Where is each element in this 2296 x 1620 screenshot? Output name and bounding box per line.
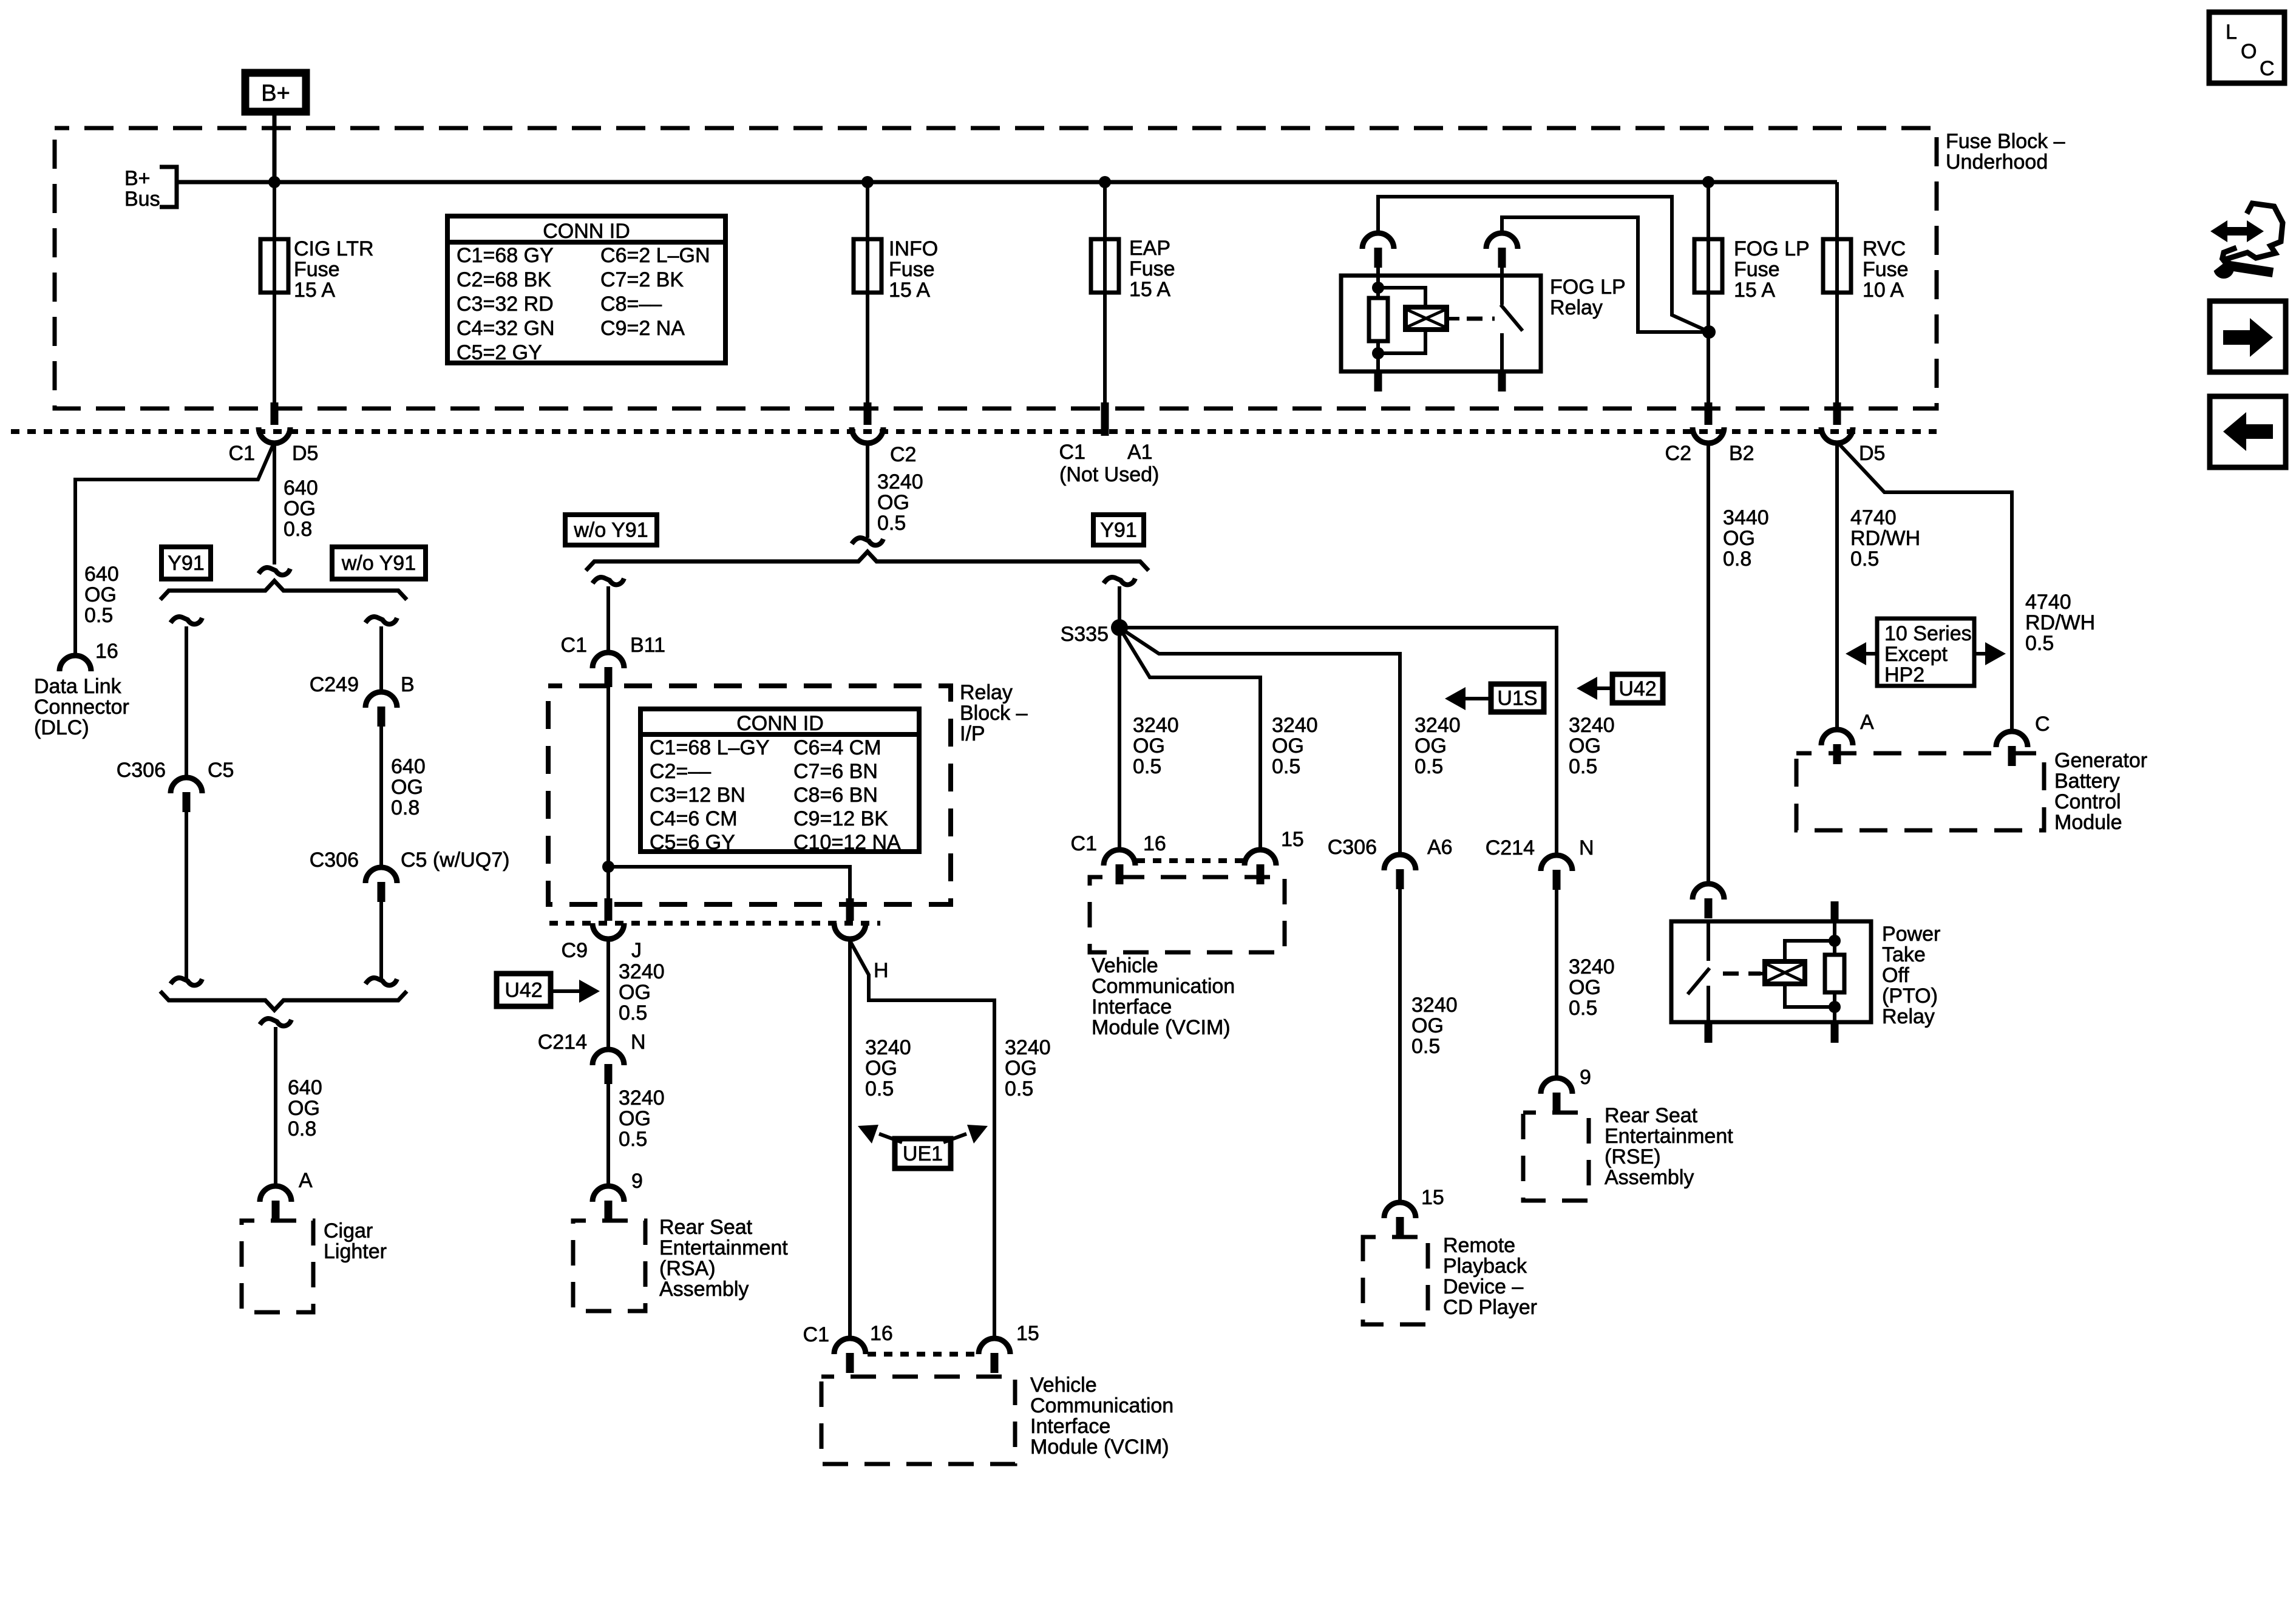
svg-text:RVCFuse10 A: RVCFuse10 A <box>1863 237 1909 302</box>
bus junction at CIG <box>268 176 280 188</box>
wire B+ to bus <box>273 115 277 182</box>
connector 15 bottom VCIM <box>979 1338 1010 1354</box>
svg-text:9: 9 <box>631 1170 643 1193</box>
wire B2 down <box>1707 442 1710 885</box>
svg-text:15: 15 <box>1016 1322 1039 1345</box>
PTO resistor <box>1833 921 1836 955</box>
U42 option box right <box>1612 674 1663 703</box>
svg-text:O: O <box>2241 40 2257 63</box>
PTO coil lead left <box>1752 972 1765 975</box>
box w/o Y91 mid <box>565 515 657 545</box>
fuse RVC 10A <box>1823 239 1851 293</box>
wire bus to CIG fuse <box>273 182 276 404</box>
svg-text:15: 15 <box>1281 828 1304 851</box>
service icon wrench <box>2213 258 2234 279</box>
terminal 16 DLC <box>59 656 91 671</box>
PTO relay box <box>1671 921 1871 1022</box>
wire D5 diag to C <box>1837 442 2012 733</box>
wire S335 to C214 right <box>1119 628 1557 856</box>
pin A1 not used <box>1101 402 1109 436</box>
svg-text:S335: S335 <box>1061 623 1109 646</box>
relay right terminal wire <box>1502 217 1708 332</box>
RSE box <box>1523 1113 1589 1201</box>
svg-text:w/o Y91: w/o Y91 <box>573 519 648 542</box>
relay left terminal connector <box>1362 233 1394 249</box>
option brace w/o Y91 / Y91 <box>586 552 1149 571</box>
svg-text:C306: C306 <box>117 759 166 782</box>
terminal A cigar lighter <box>260 1186 291 1202</box>
svg-text:C1: C1 <box>561 634 587 657</box>
relay resistor junction top <box>1372 282 1384 294</box>
connector C249/B <box>365 692 397 708</box>
svg-text:B: B <box>401 673 415 696</box>
fuse CIG LTR 15A <box>260 239 288 293</box>
break Y91 branch top <box>171 617 202 624</box>
svg-text:Fuse Block –Underhood: Fuse Block –Underhood <box>1946 130 2065 174</box>
U1S option box <box>1491 684 1544 712</box>
connector D5 right <box>1833 402 1841 425</box>
svg-text:CONN ID: CONN ID <box>736 712 824 735</box>
svg-text:B11: B11 <box>630 634 665 657</box>
box w/o Y91 left <box>332 547 426 579</box>
service icon outline <box>2222 203 2283 260</box>
U42 arrow <box>551 989 579 993</box>
wire S335 diag to C306/A6 <box>1119 628 1400 856</box>
svg-text:C2: C2 <box>1665 442 1691 465</box>
wire D5 to A <box>1835 442 1839 731</box>
svg-text:L: L <box>2226 21 2237 44</box>
svg-text:C1: C1 <box>1059 441 1085 464</box>
bottom VCIM box <box>821 1377 1015 1464</box>
wire A6 down <box>1398 889 1402 1204</box>
relay coil lead dash <box>1447 317 1459 320</box>
bus junction at INFO <box>861 176 874 188</box>
svg-text:J: J <box>631 939 642 962</box>
svg-text:w/o Y91: w/o Y91 <box>341 552 416 575</box>
break relay-block branch <box>593 577 624 585</box>
fuse block - underhood dashed border <box>55 128 1937 408</box>
svg-text:D5: D5 <box>1859 442 1885 465</box>
svg-text:9: 9 <box>1580 1066 1591 1089</box>
relay right terminal connector <box>1486 233 1518 249</box>
PTO bottom stub right <box>1831 1022 1839 1043</box>
B+ bus bracket <box>160 167 177 207</box>
CONN ID table relay block <box>640 709 919 852</box>
break w/o Y91 branch bottom <box>365 978 397 985</box>
PTO actuator dash <box>1723 972 1761 976</box>
connector C1/16 top VCIM <box>1104 850 1135 866</box>
fuse INFO 15A <box>854 239 881 293</box>
relay bottom stub right <box>1498 371 1506 391</box>
svg-text:C214: C214 <box>1486 836 1535 859</box>
PTO coil <box>1765 961 1805 984</box>
bus junction at FOG LP <box>1702 176 1714 188</box>
svg-text:EAPFuse15 A: EAPFuse15 A <box>1129 237 1175 301</box>
fuse block bottom connector dotted line <box>11 429 1937 434</box>
wire junction to H drop <box>608 867 850 900</box>
PTO junction top <box>1829 935 1841 947</box>
svg-text:C1: C1 <box>1071 832 1097 855</box>
connector C306/A6 <box>1384 855 1416 870</box>
bus junction at EAP <box>1099 176 1111 188</box>
relay coil resistor <box>1376 276 1380 298</box>
svg-text:U42: U42 <box>504 979 542 1002</box>
top VCIM box <box>1090 877 1285 952</box>
svg-text:A: A <box>1860 711 1874 734</box>
svg-text:C: C <box>2260 57 2275 80</box>
wire S335 diag to VCIM 15 <box>1119 628 1260 851</box>
B+ power feed box <box>245 73 306 112</box>
relay bottom stub left <box>1374 371 1382 391</box>
break above brace3 <box>852 538 883 545</box>
connector H <box>846 898 854 921</box>
S335 junction <box>1111 619 1128 636</box>
wire Y91 branch lower <box>185 812 188 978</box>
wire D5 down <box>273 442 276 564</box>
wire to C1/B11 <box>606 586 610 654</box>
wire inside relay block <box>606 686 610 900</box>
svg-text:16: 16 <box>95 640 118 663</box>
UE1 arrow left <box>879 1134 902 1142</box>
break below merge brace <box>260 1018 291 1026</box>
svg-text:C249: C249 <box>310 673 359 696</box>
junction FOG fuse / relay feed <box>1702 325 1716 339</box>
svg-text:N: N <box>1579 836 1594 859</box>
break S335 branch <box>1104 577 1135 585</box>
RSA box <box>573 1221 645 1311</box>
svg-text:16: 16 <box>870 1322 893 1345</box>
dotted line bottom VCIM <box>868 1352 979 1357</box>
connector C1/B11 <box>593 652 624 668</box>
connector C214/N right <box>1541 855 1572 871</box>
wire H left leg <box>848 938 852 1340</box>
break w/o Y91 branch top <box>365 617 397 624</box>
svg-text:C: C <box>2035 713 2050 736</box>
svg-text:C214: C214 <box>538 1031 587 1054</box>
connector 15 top VCIM <box>1245 850 1276 866</box>
svg-text:(Not Used): (Not Used) <box>1059 463 1159 486</box>
connector C2 <box>864 402 872 425</box>
wire w/o Y91 lower <box>379 902 383 978</box>
UE1 arrow right <box>943 1134 966 1142</box>
PTO switch <box>1707 921 1710 961</box>
wire Y91 branch upper <box>185 626 188 779</box>
svg-text:A1: A1 <box>1127 441 1153 464</box>
fuse FOG LP 15A <box>1694 239 1722 293</box>
CONN ID table fuse block <box>447 216 725 363</box>
relay block I/P dashed box <box>548 686 951 904</box>
cigar lighter box <box>242 1221 313 1312</box>
PTO top right stub <box>1831 901 1839 921</box>
10 series arrow right <box>1974 652 1985 656</box>
wire below C2 <box>866 443 869 538</box>
svg-text:B2: B2 <box>1729 442 1754 465</box>
svg-text:H: H <box>874 959 889 982</box>
connector C306/C5 <box>171 778 202 793</box>
connector PTO feed <box>1693 884 1724 900</box>
terminal 15 remote playback <box>1384 1202 1416 1218</box>
svg-text:Y91: Y91 <box>168 552 205 575</box>
connector C generator <box>1996 731 2028 747</box>
wire bus to FOG fuse <box>1707 182 1710 404</box>
connector C2/B2 <box>1705 402 1713 425</box>
U42 option box <box>497 974 551 1006</box>
generator battery control module box <box>1796 753 2044 830</box>
svg-text:N: N <box>631 1031 646 1054</box>
box Y91 mid <box>1093 515 1144 545</box>
wire to cigar lighter <box>274 1027 277 1187</box>
svg-text:B+: B+ <box>261 81 290 106</box>
U1S arrow <box>1466 697 1491 700</box>
connector C9/J <box>605 898 613 921</box>
relay left terminal wire <box>1378 197 1710 332</box>
svg-text:C9: C9 <box>562 939 588 962</box>
back arrow box <box>2210 396 2286 467</box>
fuse EAP 15A <box>1091 239 1119 293</box>
U42 arrow right <box>1597 686 1612 690</box>
wire to S335 <box>1118 586 1121 628</box>
LOC reference box <box>2209 12 2284 83</box>
relay coil <box>1405 307 1447 330</box>
option brace Y91 / w-o Y91 <box>160 581 407 600</box>
wire S335 down to VCIM C1/16 <box>1118 628 1121 851</box>
PTO bottom stub left <box>1705 1022 1713 1043</box>
svg-text:C5: C5 <box>208 759 234 782</box>
svg-text:C1: C1 <box>229 442 255 465</box>
10 Series Except HP2 box <box>1877 619 1974 686</box>
break Y91 branch bottom <box>171 978 202 985</box>
svg-text:16: 16 <box>1143 832 1166 855</box>
svg-text:C306: C306 <box>1328 836 1377 859</box>
svg-text:C1=68 GYC2=68 BKC3=32 RDC4=32: C1=68 GYC2=68 BKC3=32 RDC4=32 GNC5=2 GY <box>457 244 555 364</box>
svg-text:C5 (w/UQ7): C5 (w/UQ7) <box>401 849 509 872</box>
svg-text:15: 15 <box>1421 1186 1444 1209</box>
wire C214 to RSA <box>606 1084 610 1187</box>
wire H right leg <box>850 941 994 1340</box>
svg-text:A6: A6 <box>1427 836 1453 859</box>
UE1 option box <box>895 1139 951 1168</box>
connector 16 bottom VCIM <box>834 1338 866 1354</box>
break above brace1 <box>259 568 290 575</box>
svg-text:D5: D5 <box>292 442 318 465</box>
dotted line top VCIM <box>1136 858 1245 863</box>
relay block bottom dotted line <box>549 921 880 926</box>
wire bus to INFO fuse <box>866 182 869 404</box>
svg-text:C2: C2 <box>890 443 916 466</box>
connector A generator <box>1821 730 1853 745</box>
wire bus to EAP fuse <box>1103 182 1107 404</box>
svg-text:UE1: UE1 <box>903 1142 943 1165</box>
PTO coil brackets <box>1785 941 1835 961</box>
10 series arrow left <box>1866 652 1877 656</box>
wire C9 down <box>606 938 610 1051</box>
connector C214/N left <box>593 1049 624 1065</box>
junction in relay block <box>602 861 614 873</box>
connector C1/D5 <box>271 402 279 425</box>
wire w/o Y91 upper <box>379 626 383 693</box>
FOG LP relay box <box>1341 276 1541 371</box>
box Y91 <box>161 547 211 579</box>
svg-text:U42: U42 <box>1618 677 1656 700</box>
merge brace above cigar lighter <box>160 991 407 1010</box>
svg-text:CONN ID: CONN ID <box>543 220 630 243</box>
svg-text:U1S: U1S <box>1497 687 1537 710</box>
terminal 9 RSE <box>1541 1078 1572 1094</box>
wire N to RSE <box>1555 890 1558 1079</box>
terminal 9 RSA <box>593 1186 624 1202</box>
PTO junction bottom <box>1829 1001 1841 1013</box>
service icon double arrow <box>2224 227 2250 236</box>
wire w/o Y91 mid <box>379 727 383 869</box>
connector C306/C5 w/UQ7 <box>365 867 397 883</box>
svg-text:C1: C1 <box>803 1323 829 1346</box>
svg-text:Y91: Y91 <box>1100 519 1137 542</box>
B+ bus wire <box>177 180 1837 185</box>
svg-text:C306: C306 <box>310 849 359 872</box>
wire bus corner to RVC fuse <box>1835 182 1839 404</box>
relay coil bracket <box>1378 288 1425 307</box>
relay switch <box>1500 276 1504 305</box>
remote playback box <box>1363 1237 1428 1324</box>
svg-text:A: A <box>299 1169 313 1192</box>
relay resistor junction bottom <box>1372 347 1384 359</box>
wire D5 to DLC corner <box>75 442 274 657</box>
forward arrow box <box>2210 301 2286 372</box>
